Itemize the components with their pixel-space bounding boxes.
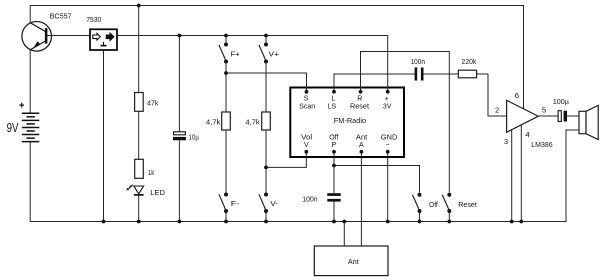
svg-text:GND: GND: [381, 134, 397, 141]
svg-text:1k: 1k: [148, 168, 154, 177]
svg-text:Reset: Reset: [458, 200, 477, 209]
svg-text:5: 5: [542, 105, 546, 114]
svg-text:F-: F-: [231, 199, 240, 208]
svg-text:100n: 100n: [302, 195, 317, 204]
svg-text:P: P: [331, 142, 336, 149]
svg-text:+: +: [384, 96, 388, 103]
svg-text:F+: F+: [231, 50, 240, 59]
svg-text:A: A: [359, 142, 364, 149]
svg-text:100n: 100n: [411, 57, 425, 66]
svg-text:3: 3: [504, 137, 508, 146]
svg-text:S: S: [304, 96, 309, 103]
svg-text:LS: LS: [328, 104, 337, 111]
svg-text:LED: LED: [150, 188, 165, 197]
svg-text:6: 6: [515, 91, 519, 100]
svg-text:BC557: BC557: [50, 11, 72, 20]
svg-text:V: V: [304, 142, 309, 149]
svg-text:10µ: 10µ: [189, 132, 200, 141]
svg-text:Vol: Vol: [301, 134, 312, 141]
svg-text:9V: 9V: [7, 121, 19, 135]
svg-text:Off: Off: [429, 200, 439, 209]
svg-text:Ant: Ant: [348, 257, 360, 266]
svg-text:Scan: Scan: [299, 104, 315, 111]
svg-text:V+: V+: [269, 50, 280, 59]
svg-text:3V: 3V: [383, 104, 392, 111]
svg-text:220k: 220k: [462, 57, 477, 66]
svg-text:R: R: [357, 96, 362, 103]
svg-text:4: 4: [525, 130, 530, 139]
svg-text:47k: 47k: [147, 99, 158, 108]
svg-text:FM-Radio: FM-Radio: [334, 116, 366, 125]
svg-text:7530: 7530: [86, 15, 101, 24]
svg-text:2: 2: [495, 106, 499, 115]
svg-text:Ant: Ant: [356, 134, 367, 141]
svg-text:4,7k: 4,7k: [206, 117, 220, 126]
svg-text:100µ: 100µ: [553, 97, 570, 106]
svg-text:~: ~: [385, 142, 389, 149]
svg-text:V-: V-: [270, 199, 278, 208]
svg-text:LM386: LM386: [531, 140, 552, 149]
svg-text:L: L: [332, 96, 336, 103]
svg-text:Off: Off: [329, 134, 338, 141]
svg-text:4,7k: 4,7k: [245, 117, 259, 126]
svg-text:Reset: Reset: [350, 104, 369, 111]
